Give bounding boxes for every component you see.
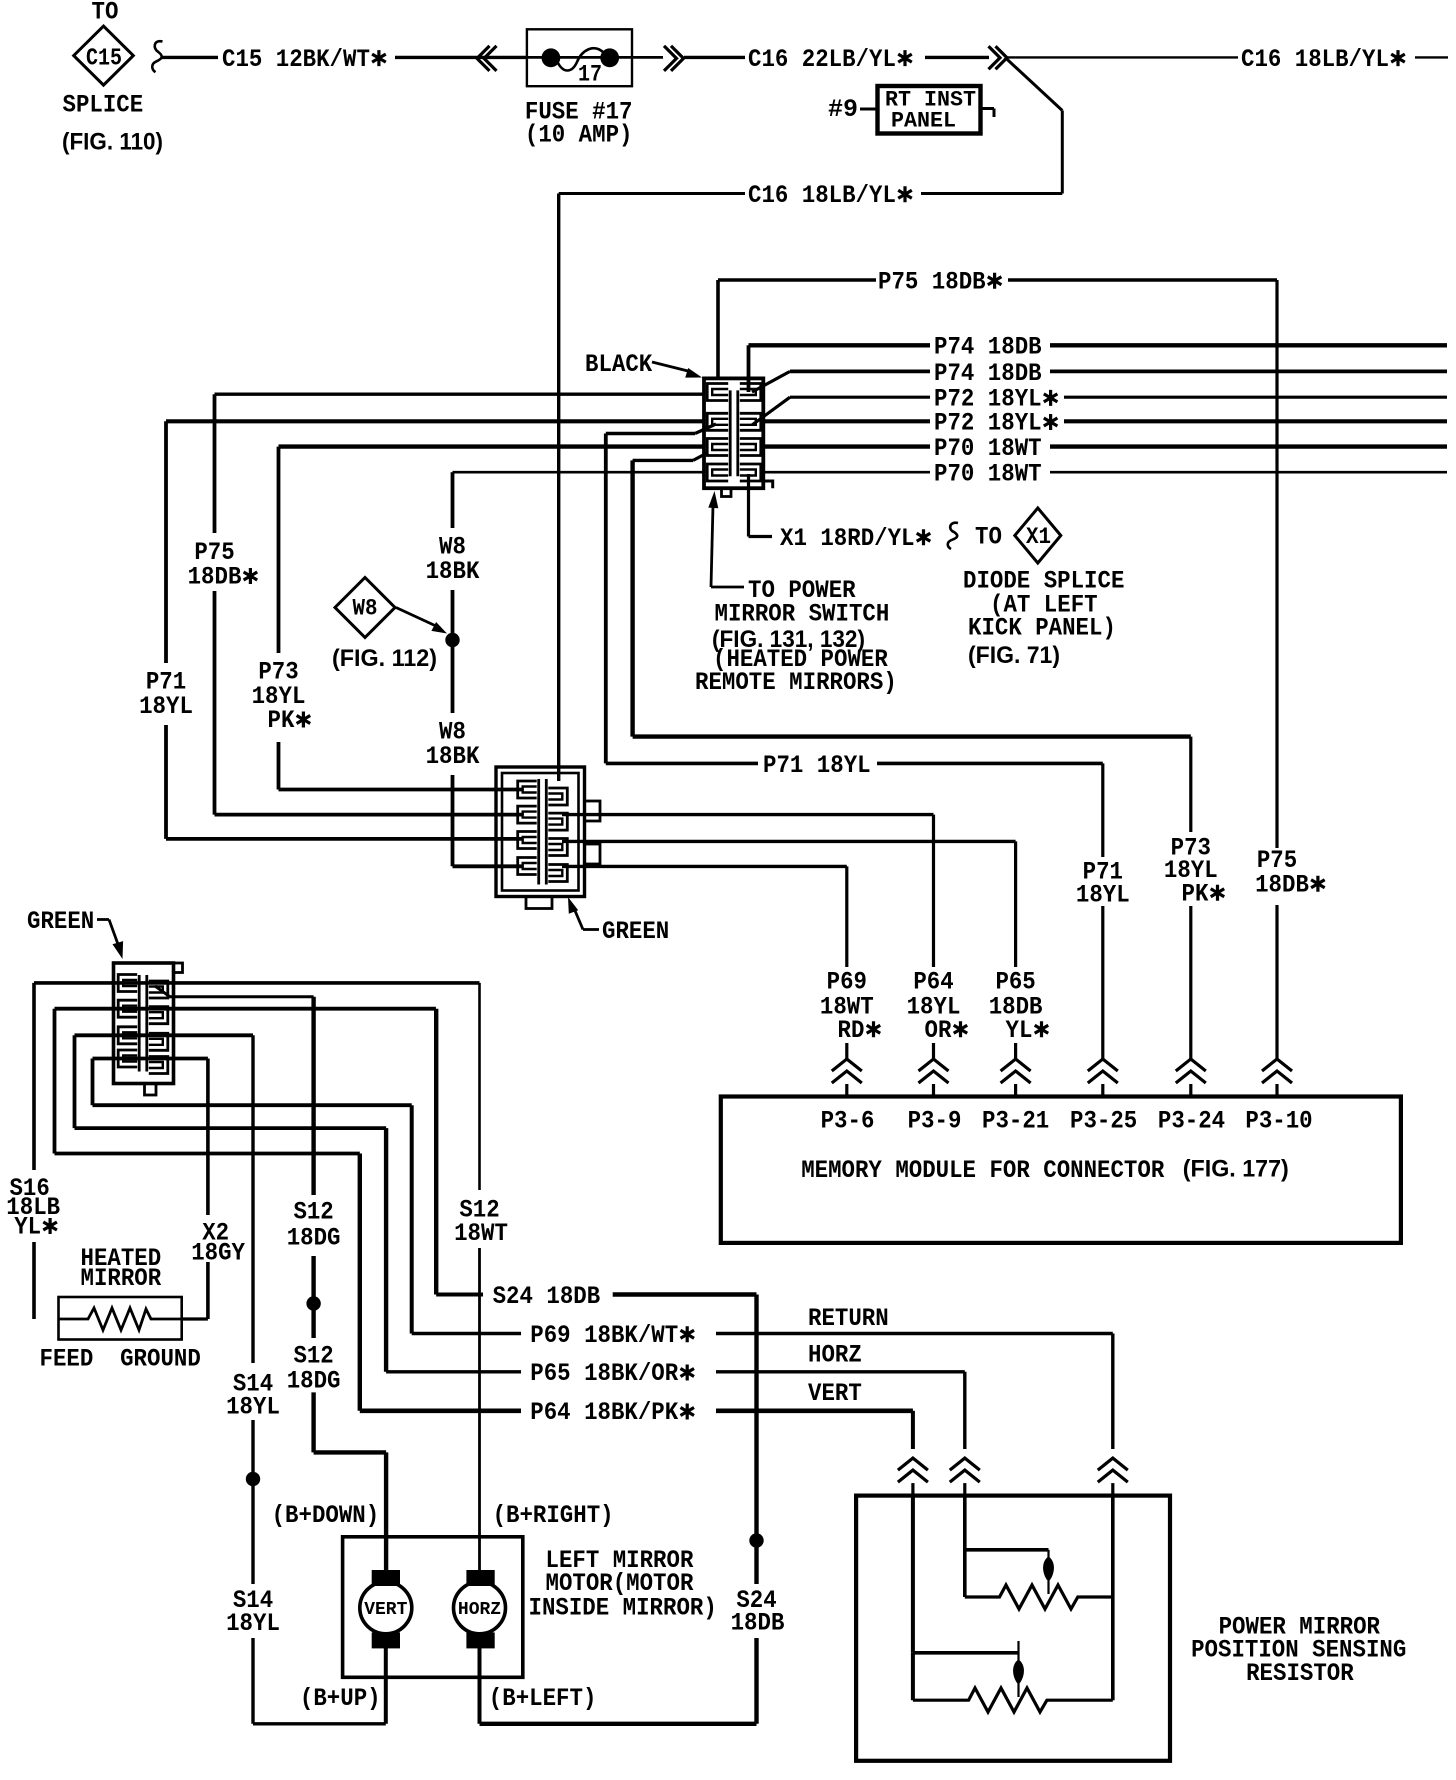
wire label P65 18DB YL (989, 968, 1049, 1046)
wire label S12 18DG (upper) (287, 1198, 341, 1253)
wire S12-DG vertical middle (311, 1256, 315, 1338)
wire S12-DG corner to VERT motor (314, 1450, 387, 1454)
motor M2 HORZ terminal bottom (466, 1632, 494, 1648)
svg-text:18DB: 18DB (731, 1609, 785, 1638)
fuse F17 box (527, 29, 632, 86)
svg-text:18YL: 18YL (139, 692, 193, 721)
label (B+DOWN) (272, 1501, 380, 1530)
wire to C16 22LB/YL (684, 56, 745, 59)
wire P70 18WT first mid segment (762, 444, 930, 448)
label FEED (40, 1345, 94, 1374)
wire P71 left vertical lower (164, 725, 168, 839)
wire S24 right segment (613, 1292, 757, 1296)
label (B+RIGHT) (493, 1501, 614, 1530)
left mirror motor box (343, 1537, 523, 1678)
wire P71 18YL from connector right (606, 762, 758, 766)
svg-text:18YL: 18YL (226, 1393, 280, 1422)
inline connector chevrons >> after fuse (664, 46, 684, 71)
svg-text:18WT: 18WT (454, 1219, 508, 1248)
svg-text:P3-9: P3-9 (908, 1107, 962, 1136)
label (FIG. 131, 132) (712, 626, 865, 653)
wire S24 left segment (436, 1293, 483, 1297)
wire label P64 18BK/PK (530, 1398, 694, 1427)
wire P74 18DB second left segment (790, 369, 930, 373)
svg-text:18BK: 18BK (426, 742, 480, 771)
wire P65 right vertical (to P3-21) (1014, 841, 1017, 1059)
label (B+UP) (300, 1684, 381, 1713)
wire label S24 18DB (vertical) (731, 1586, 785, 1638)
label (B+LEFT) (489, 1684, 597, 1713)
wire label P73 18YL PK (right) (1164, 833, 1224, 908)
svg-text:P75 18DB: P75 18DB (878, 267, 986, 296)
wire X1 vertical from black connector (747, 474, 750, 537)
svg-text:P3-25: P3-25 (1070, 1107, 1137, 1136)
wire P73 right horizontal (633, 734, 1191, 738)
motor M1 VERT terminal bottom (372, 1632, 400, 1648)
splice dot S12 (306, 1296, 320, 1310)
wire P72 18YL second right segment (1064, 419, 1447, 423)
wire label P73 18YL PK (left) (252, 658, 311, 736)
svg-text:RETURN: RETURN (808, 1304, 889, 1333)
label MEMORY MODULE FOR CONNECTOR (801, 1156, 1164, 1185)
wire label C15 12BK/WT (222, 45, 386, 74)
wire row4 left connector to X2 (93, 1057, 208, 1061)
svg-text:18DB: 18DB (188, 563, 242, 592)
wire stub #9 to panel box (860, 108, 877, 111)
label HORZ (808, 1341, 862, 1370)
svg-text:18DG: 18DG (287, 1224, 341, 1253)
label INSIDE MIRROR) (529, 1593, 717, 1622)
connector break chevrons P3-10 (1262, 1059, 1292, 1097)
wire C16 18LB/YL row2 right segment (921, 192, 1062, 195)
wire P75 right vertical (to P3-10) (1275, 280, 1278, 1059)
svg-text:P65 18BK/OR: P65 18BK/OR (530, 1359, 678, 1388)
wire label P69 18BK/WT (530, 1321, 694, 1350)
wire P72 diagonal from connector (752, 397, 790, 425)
label (FIG. 177) (1183, 1155, 1289, 1182)
label GROUND (120, 1345, 201, 1374)
wire label S14 18YL (lower) (226, 1586, 280, 1638)
wire P69 RETURN left segment (412, 1332, 521, 1335)
connector break chevrons VERT sense (898, 1458, 928, 1496)
svg-text:X1: X1 (1026, 524, 1051, 550)
splice symbol W8 (335, 578, 395, 638)
wire P69 from green connector (562, 865, 847, 868)
svg-text:YL: YL (14, 1213, 41, 1242)
pot R3 wiper (1013, 1641, 1024, 1697)
motor M1 VERT terminal top (372, 1570, 400, 1586)
connector break chevrons P3-9 (919, 1059, 949, 1097)
wire RETURN vertical to sensor (1111, 1334, 1114, 1450)
label FUSE #17 (525, 98, 633, 127)
pin label P3-24 (1158, 1107, 1225, 1136)
wire label P69 18WT RD (820, 968, 880, 1046)
wire P71 18YL to corner (877, 762, 1103, 766)
wire VERT vertical to sensor (911, 1411, 915, 1449)
wire P64 from green connector (562, 813, 934, 816)
label MOTOR(MOTOR (546, 1569, 694, 1598)
svg-text:P74 18DB: P74 18DB (934, 359, 1042, 388)
wire P70 18WT first right segment (1050, 444, 1447, 448)
wire row3 left connector to S14 (75, 1033, 254, 1037)
wire C16 22LB/YL right segment (925, 56, 989, 59)
wire C16 18LB/YL row2 left segment (559, 192, 745, 195)
svg-text:MEMORY MODULE FOR CONNECTOR: MEMORY MODULE FOR CONNECTOR (801, 1156, 1164, 1185)
wire-break squiggle at C15 (152, 41, 162, 72)
wire P71 left vertical upper (164, 421, 168, 663)
wire P65 from green connector (562, 840, 1016, 843)
wire P73 left vertical lower (277, 742, 281, 790)
svg-text:(FIG. 71): (FIG. 71) (968, 642, 1060, 669)
svg-text:C15 12BK/WT: C15 12BK/WT (222, 45, 370, 74)
wire P65 HORZ right segment (716, 1370, 965, 1373)
wire VERT to pot R3 left end (911, 1653, 915, 1700)
wire HORZ inside sensor box (963, 1496, 967, 1597)
label BLACK (585, 350, 652, 379)
wire row2 through left connector (55, 1007, 436, 1011)
motor M2 HORZ terminal top (466, 1570, 494, 1586)
wire C16 vertical to green connector (557, 194, 560, 782)
wire jog from x606 into black connector (606, 424, 716, 434)
connector break chevrons RETURN sense (1098, 1458, 1128, 1496)
fuse F17 element (557, 48, 604, 70)
inline connector chevrons << (477, 46, 497, 71)
label TO (diode splice X1) (975, 523, 1002, 552)
pin label P3-10 (1245, 1107, 1312, 1136)
svg-text:C16 18LB/YL: C16 18LB/YL (748, 181, 896, 210)
memory module U1 box (721, 1097, 1401, 1243)
wire S12-WT vertical lower (478, 1248, 481, 1570)
wire label S24 18DB (493, 1282, 601, 1311)
wire W8 into green connector (453, 864, 523, 868)
svg-text:GROUND: GROUND (120, 1345, 201, 1374)
svg-text:C16 22LB/YL: C16 22LB/YL (748, 45, 896, 74)
wire S16 vertical upper (32, 983, 36, 1170)
wire label P65 18BK/OR (530, 1359, 694, 1388)
wire label P71 18YL (left) (139, 668, 193, 722)
svg-text:P74 18DB: P74 18DB (934, 333, 1042, 362)
svg-text:S12: S12 (293, 1198, 333, 1227)
svg-text:PK: PK (1182, 880, 1209, 909)
svg-text:GREEN: GREEN (27, 907, 94, 936)
wire P70 18WT second right segment (1050, 471, 1447, 474)
wire P69 RETURN right segment (716, 1332, 1113, 1335)
wire S14 vertical upper (251, 1035, 254, 1363)
wire label S12 18DG (lower) (287, 1342, 341, 1396)
svg-text:W8: W8 (353, 595, 378, 621)
wire pot R3 wiper feed (913, 1651, 1019, 1655)
connector BLACK (to power mirror switch) (704, 378, 773, 496)
svg-text:C15: C15 (86, 46, 122, 73)
wire label S14 18YL (upper) (226, 1370, 280, 1422)
wire label P70 18WT (1) (934, 434, 1042, 463)
wire HORZ motor bottom lead (478, 1648, 482, 1724)
wire S16 row through left connector (34, 981, 480, 985)
wire VERT inside sensor box (911, 1496, 915, 1653)
fuse F17 left terminal (542, 48, 561, 67)
pin label P3-25 (1070, 1107, 1137, 1136)
leader from GREEN label to connector (568, 897, 599, 930)
wire vertical x1062 (1061, 111, 1064, 194)
wire S24 bottom horizontal to HORZ motor (480, 1722, 757, 1726)
label DIODE SPLICE (963, 567, 1124, 596)
connector GREEN (mirror harness) (114, 963, 183, 1095)
svg-text:(B+DOWN): (B+DOWN) (272, 1501, 380, 1530)
wire W8 vertical lower (451, 775, 455, 866)
wire label P64 18YL OR (907, 968, 968, 1046)
splice symbol C15 (74, 26, 134, 85)
svg-text:18YL: 18YL (226, 1609, 280, 1638)
svg-text:#9: #9 (828, 95, 858, 124)
svg-text:17: 17 (578, 61, 602, 87)
wire P72 18YL first left segment (790, 396, 930, 399)
wire label P75 18DB (left) (188, 538, 258, 592)
wire P72 18YL first right segment (1064, 396, 1447, 399)
wire P75 into green connector (215, 813, 523, 817)
wire P71 right vertical (to P3-25) (1101, 763, 1104, 1059)
splice dot W8 (445, 633, 459, 647)
wire label P75 18DB (right) (1255, 846, 1325, 899)
svg-text:(FIG. 177): (FIG. 177) (1183, 1155, 1289, 1182)
heating element R1 box (59, 1297, 182, 1340)
wire P75 18DB right segment (1008, 278, 1277, 281)
leader from BLACK label (652, 362, 702, 378)
wire P71 into green connector (166, 837, 522, 841)
svg-text:(FIG. 112): (FIG. 112) (332, 645, 437, 672)
wire X1 horizontal stub (749, 535, 773, 538)
wire C16 18LB/YL top right (1007, 56, 1238, 58)
connector break chevrons P3-21 (1001, 1059, 1031, 1097)
label MIRROR (heated) (81, 1264, 162, 1293)
wire S12-DG vertical upper (311, 997, 315, 1195)
label (AT LEFT (990, 591, 1098, 620)
wire P64 VERT left segment (360, 1409, 521, 1414)
wire vertical x606 from black connector (604, 434, 608, 764)
inline connector chevrons >> at instrument panel (989, 46, 1008, 69)
wire X2 vertical lower (206, 1262, 210, 1319)
wire RETURN inside sensor box (1111, 1496, 1115, 1701)
label (FIG. 110) (62, 129, 163, 156)
svg-text:MIRROR SWITCH: MIRROR SWITCH (715, 599, 890, 628)
wire P70 18WT second mid segment (762, 471, 930, 474)
label TO POWER (748, 576, 856, 605)
wire W8 vertical middle (451, 590, 455, 713)
svg-text:PK: PK (268, 706, 295, 735)
connector break chevrons P3-6 (832, 1059, 862, 1097)
leader from GREEN to left connector (97, 920, 123, 960)
wire label P71 18YL (horizontal) (763, 751, 871, 780)
connector GREEN (door harness) (496, 767, 600, 909)
label (FIG. 112) (332, 645, 437, 672)
wire P70 18WT second left segment (453, 471, 705, 474)
wire P70 18WT first left segment (279, 444, 705, 448)
wire S24 top vertical (434, 1009, 438, 1295)
wire-break squiggle at X1 (948, 523, 958, 549)
wire row3 horizontal to P65 path (75, 1126, 387, 1130)
wire row4 corner down x92.5 (91, 1059, 95, 1106)
wire label C16 18LB/YL (row 2) (748, 181, 912, 210)
position sensing resistor box (856, 1496, 1170, 1761)
svg-text:(B+UP): (B+UP) (300, 1684, 381, 1713)
wire P73 left vertical upper (277, 447, 281, 653)
svg-text:TO: TO (92, 0, 119, 27)
wire pot R2 wiper feed (965, 1548, 1049, 1552)
connector break chevrons P3-25 (1088, 1059, 1118, 1097)
wire diagonal from chevron down (1005, 57, 1062, 110)
wire S14 vertical middle (251, 1420, 254, 1584)
pin label P3-21 (982, 1107, 1049, 1136)
wire row1 left of black connector (215, 393, 705, 396)
label HEATED (81, 1244, 162, 1273)
wire row2 horizontal to P64 path (55, 1152, 360, 1156)
wire VERT motor bottom lead (384, 1648, 388, 1724)
wire P64 VERT right segment (716, 1409, 913, 1414)
label REMOTE MIRRORS) (695, 668, 897, 697)
fuse F17 value 17 (578, 61, 602, 87)
motor M1 VERT body (360, 1582, 412, 1634)
wire S24 vertical (754, 1295, 758, 1585)
wire C15 12BK/WT left segment (162, 56, 218, 59)
wire label C16 22LB/YL (748, 45, 912, 74)
pot R2 wiper (1043, 1550, 1054, 1594)
wire P74 18DB first right segment (1050, 343, 1447, 347)
label KICK PANEL) (968, 614, 1116, 643)
wire X2 vertical upper (206, 1059, 210, 1216)
wire S14 vertical lower (251, 1638, 254, 1724)
wire P64 path vertical (358, 1154, 362, 1411)
wire label C16 18LB/YL (top right) (1241, 45, 1405, 74)
label #9 (828, 95, 858, 124)
svg-text:RD: RD (838, 1016, 865, 1045)
wire P74 18DB second right segment (1050, 369, 1447, 373)
svg-text:HORZ: HORZ (458, 1600, 501, 1620)
wire label S12 18WT (454, 1195, 508, 1247)
svg-text:(B+LEFT): (B+LEFT) (489, 1684, 597, 1713)
svg-text:P3-6: P3-6 (821, 1107, 875, 1136)
wire label W8 18BK (lower) (426, 718, 480, 772)
connector #9 RT INST PANEL box (878, 86, 981, 134)
wire label P72 18YL (1) (934, 385, 1057, 414)
svg-text:P69 18BK/WT: P69 18BK/WT (530, 1321, 678, 1350)
wire label P70 18WT (2) (934, 460, 1042, 489)
wire row4 horizontal to P69 path (93, 1103, 412, 1107)
svg-text:18YL: 18YL (1076, 881, 1130, 910)
wire P65 path vertical (384, 1128, 388, 1372)
wire label P72 18YL (2) (934, 409, 1057, 438)
label LEFT MIRROR (546, 1546, 694, 1575)
label GREEN (left connector) (27, 907, 94, 936)
pot R2 element (965, 1585, 1113, 1609)
svg-text:HORZ: HORZ (808, 1341, 862, 1370)
wire P64 right vertical (to P3-9) (932, 815, 935, 1059)
wire P72 18YL second mid segment (762, 419, 930, 423)
label (10 AMP) (525, 121, 633, 150)
wire S14 bottom horizontal to VERT motor (253, 1722, 386, 1725)
svg-text:TO: TO (975, 523, 1002, 552)
svg-text:(10 AMP): (10 AMP) (525, 121, 633, 150)
wire P75 18DB left segment (718, 278, 876, 281)
connector break chevrons P3-24 (1176, 1059, 1206, 1097)
svg-text:OR: OR (925, 1016, 952, 1045)
motor M2 HORZ body (454, 1582, 506, 1634)
wire HORZ vertical to sensor (963, 1372, 966, 1449)
fuse F17 wire through (527, 56, 663, 59)
svg-text:FEED: FEED (40, 1345, 94, 1374)
wire label P75 18DB (top) (878, 267, 1001, 296)
wire P73 right vertical (to P3-24) (1189, 737, 1192, 1059)
label POWER MIRROR (1219, 1612, 1380, 1641)
svg-text:RESISTOR: RESISTOR (1246, 1659, 1354, 1688)
wire stub right of panel box (981, 109, 995, 118)
svg-text:YL: YL (1006, 1016, 1033, 1045)
wire branch curve to S12-DG (155, 986, 314, 997)
label VERT (808, 1379, 862, 1408)
svg-text:INSIDE MIRROR): INSIDE MIRROR) (529, 1593, 717, 1622)
svg-text:REMOTE MIRRORS): REMOTE MIRRORS) (695, 668, 897, 697)
wire X2 lead to heated mirror (182, 1317, 208, 1320)
wire label S16 18LB YL (6, 1174, 60, 1242)
svg-text:18GY: 18GY (191, 1239, 245, 1268)
svg-text:P3-10: P3-10 (1245, 1107, 1312, 1136)
svg-text:18BK: 18BK (426, 557, 480, 586)
wire label W8 18BK (upper) (426, 533, 480, 587)
leader from W8 diamond to splice (396, 608, 447, 634)
wire P75 left vertical upper (213, 394, 217, 533)
wire P72 18YL second left segment (166, 419, 704, 423)
wire P75 vertical into black connector (716, 280, 720, 380)
svg-text:BLACK: BLACK (585, 350, 652, 379)
wire vertical x633 from black connector (630, 460, 634, 736)
wire C16 18LB/YL to right edge (1415, 56, 1448, 58)
pin label P3-9 (908, 1107, 962, 1136)
svg-text:MIRROR: MIRROR (81, 1264, 162, 1293)
svg-text:VERT: VERT (808, 1379, 862, 1408)
svg-text:X1 18RD/YL: X1 18RD/YL (780, 524, 915, 553)
wire row3 corner down x74.5 (73, 1035, 77, 1128)
wire W8 vertical upper (451, 472, 455, 528)
wire S12-WT vertical upper (478, 983, 481, 1190)
svg-text:VERT: VERT (364, 1600, 407, 1620)
svg-text:18DG: 18DG (287, 1367, 341, 1396)
wire P65 HORZ left segment (386, 1370, 521, 1373)
wire jog from x633 into black connector (633, 453, 708, 461)
wire label X1 18RD/YL (780, 524, 930, 553)
wire label P74 18DB (1) (934, 333, 1042, 362)
svg-text:P3-21: P3-21 (982, 1107, 1049, 1136)
wire S12-DG vertical lower (311, 1392, 315, 1452)
wire S24 vertical lower (754, 1638, 758, 1724)
wire P69 path vertical (410, 1105, 414, 1333)
label SPLICE (63, 91, 144, 120)
label PANEL (891, 109, 956, 134)
svg-text:P64 18BK/PK: P64 18BK/PK (530, 1398, 678, 1427)
wire label P74 18DB (2) (934, 359, 1042, 388)
splice dot S24 (749, 1533, 763, 1547)
wire row2 corner down x54.5 (53, 1009, 57, 1154)
label RESISTOR (1246, 1659, 1354, 1688)
svg-text:KICK PANEL): KICK PANEL) (968, 614, 1116, 643)
pin label P3-6 (821, 1107, 875, 1136)
label (HEATED POWER (713, 645, 888, 674)
svg-text:P70 18WT: P70 18WT (934, 460, 1042, 489)
connector break chevrons HORZ sense (950, 1458, 980, 1496)
wire P74 diagonal from connector (752, 371, 790, 392)
svg-text:SPLICE: SPLICE (63, 91, 144, 120)
wire P74 18DB first left segment (749, 343, 931, 347)
svg-text:P71 18YL: P71 18YL (763, 751, 871, 780)
wire P75 left vertical lower (213, 591, 217, 815)
fuse F17 right terminal (600, 48, 619, 67)
